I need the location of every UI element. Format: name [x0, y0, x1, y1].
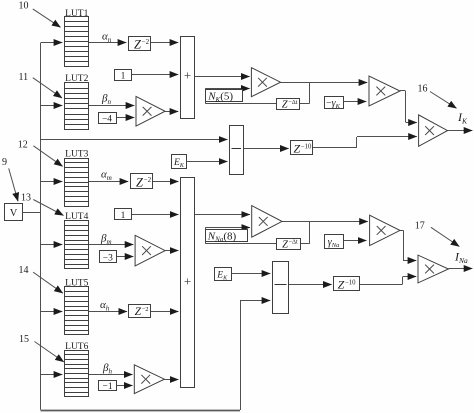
- svg-text:+: +: [184, 68, 191, 83]
- svg-text:14: 14: [19, 265, 29, 276]
- svg-text:Z: Z: [282, 240, 288, 251]
- svg-text:−10: −10: [301, 143, 312, 150]
- svg-text:−Δt: −Δt: [288, 239, 298, 246]
- svg-text:13: 13: [21, 193, 31, 204]
- svg-text:Z: Z: [293, 142, 300, 156]
- svg-text:LUT3: LUT3: [65, 149, 88, 159]
- svg-text:LUT5: LUT5: [65, 278, 88, 288]
- svg-text:−1: −1: [103, 382, 113, 392]
- svg-text:1: 1: [121, 72, 126, 82]
- svg-text:−2: −2: [144, 176, 152, 184]
- svg-text:−4: −4: [102, 115, 112, 125]
- svg-text:Z: Z: [338, 278, 345, 292]
- svg-text:LUT6: LUT6: [65, 342, 88, 352]
- svg-text:11: 11: [19, 72, 29, 83]
- svg-text:16: 16: [418, 83, 428, 94]
- svg-text:−10: −10: [345, 279, 356, 286]
- svg-text:−3: −3: [103, 253, 113, 263]
- svg-text:9: 9: [2, 157, 7, 168]
- svg-text:10: 10: [19, 1, 29, 12]
- svg-text:+: +: [184, 274, 191, 289]
- svg-text:NK(5): NK(5): [207, 91, 233, 104]
- svg-text:Z: Z: [135, 306, 142, 318]
- svg-text:LUT2: LUT2: [65, 74, 88, 84]
- svg-text:Z: Z: [282, 100, 288, 111]
- svg-text:1: 1: [121, 211, 126, 221]
- svg-text:LUT1: LUT1: [65, 9, 88, 19]
- svg-text:17: 17: [415, 221, 425, 232]
- svg-text:LUT4: LUT4: [65, 212, 88, 222]
- svg-text:−2: −2: [142, 306, 149, 313]
- svg-text:12: 12: [18, 140, 28, 151]
- svg-text:V: V: [10, 208, 18, 219]
- svg-text:−2: −2: [142, 38, 150, 46]
- svg-text:15: 15: [19, 334, 29, 345]
- svg-text:−Δt: −Δt: [288, 99, 298, 106]
